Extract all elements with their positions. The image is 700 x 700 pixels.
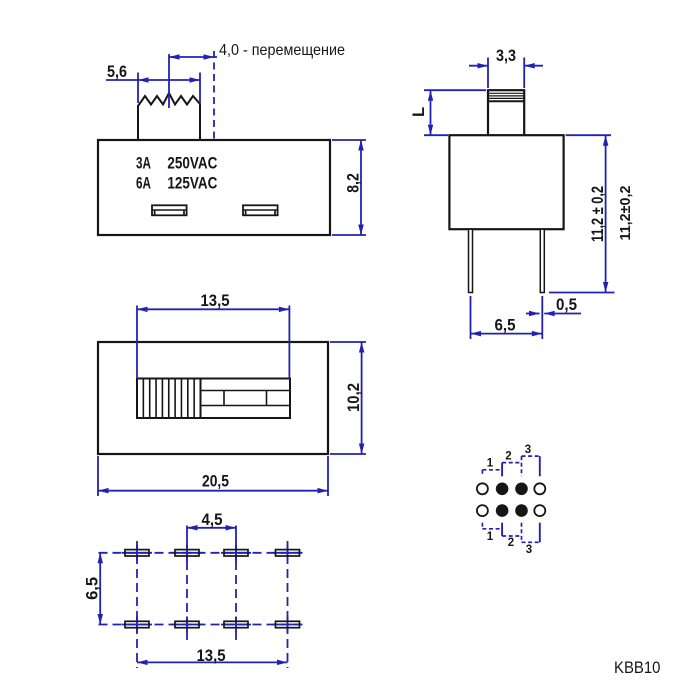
dimension 11,2 ± 0,2 (body+pin height) (549, 135, 615, 292)
dimension 13,5 (footprint width) (137, 647, 288, 665)
svg-text:0,5: 0,5 (556, 296, 577, 314)
dimension 13,5 (slider length, top view) (137, 292, 289, 379)
dimension 3,3 (actuator thickness) (469, 47, 543, 88)
svg-text:4,0 - перемещение: 4,0 - перемещение (219, 42, 345, 59)
svg-text:1: 1 (487, 458, 494, 470)
pin diagram: circles (477, 483, 545, 517)
top view: slider track (201, 379, 291, 419)
svg-text:KBB10: KBB10 (614, 658, 661, 677)
front view: slot right (243, 205, 278, 215)
svg-text:13,5: 13,5 (197, 647, 226, 665)
svg-text:3: 3 (526, 544, 532, 556)
dimension 8,2 (front body height) (332, 140, 366, 235)
front view: ratings text 3A 250VAC / 6A 125VAC (136, 155, 217, 193)
side view: body (449, 90, 563, 229)
dimension 6,5 (pin spacing, side view) (471, 296, 543, 339)
svg-text:11,2 ± 0,2: 11,2 ± 0,2 (589, 186, 607, 242)
dimension 4,5 (pad pitch) (187, 511, 236, 531)
svg-text:6A: 6A (136, 175, 151, 193)
svg-text:8,2: 8,2 (345, 173, 363, 193)
footprint view: centerlines (99, 526, 303, 669)
svg-text:250VAC: 250VAC (167, 155, 217, 173)
svg-text:2: 2 (505, 450, 511, 462)
front view: slot left (152, 205, 187, 215)
svg-text:5,6: 5,6 (107, 63, 127, 81)
svg-text:11,2±0,2: 11,2±0,2 (617, 186, 634, 241)
pin diagram: bottom brackets 1 2 3 (482, 523, 539, 556)
svg-text:3,3: 3,3 (496, 47, 516, 65)
svg-text:3: 3 (525, 444, 531, 456)
footprint view: pads (125, 550, 300, 628)
dimension 5,6 (actuator width) (106, 63, 200, 103)
svg-text:1: 1 (487, 531, 494, 543)
svg-text:2: 2 (508, 537, 514, 549)
dimension L (actuator height) (410, 90, 486, 135)
dimension 6,5 (row spacing, footprint) (84, 553, 104, 625)
dimension 20,5 (top view width) (98, 456, 328, 496)
svg-text:20,5: 20,5 (202, 473, 229, 491)
dimension 10,2 (top view height) (330, 342, 366, 454)
svg-text:10,2: 10,2 (345, 383, 363, 412)
svg-text:6,5: 6,5 (495, 317, 516, 335)
front view: switch body (98, 93, 330, 235)
svg-text:6,5: 6,5 (84, 577, 102, 600)
svg-text:3A: 3A (136, 155, 151, 173)
svg-text:125VAC: 125VAC (167, 175, 217, 193)
dimension 0,5 (pin width) (526, 296, 581, 316)
dimension 4,0 travel with centerline and dashed moved-position line (169, 42, 345, 140)
svg-text:L: L (410, 107, 428, 117)
top view: ribbed slider knob (137, 379, 201, 419)
side view: left terminal pin (469, 229, 473, 292)
svg-text:13,5: 13,5 (201, 292, 230, 310)
side view: right terminal pin (540, 229, 544, 292)
top view: outer body (98, 342, 328, 454)
pin diagram: top brackets 1 2 3 (482, 444, 539, 476)
svg-text:4,5: 4,5 (202, 511, 223, 529)
